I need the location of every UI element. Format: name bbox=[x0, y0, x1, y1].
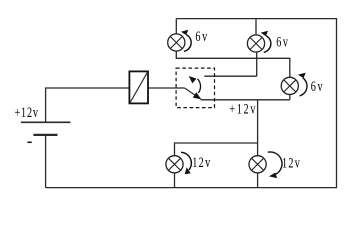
svg-text:12v: 12v bbox=[282, 155, 301, 171]
svg-text:6v: 6v bbox=[276, 33, 289, 49]
svg-text:6v: 6v bbox=[195, 28, 208, 44]
svg-text:+12v: +12v bbox=[15, 104, 39, 120]
svg-text:12v: 12v bbox=[192, 154, 211, 170]
svg-text:+12v: +12v bbox=[229, 101, 257, 117]
svg-text:6v: 6v bbox=[311, 78, 324, 94]
